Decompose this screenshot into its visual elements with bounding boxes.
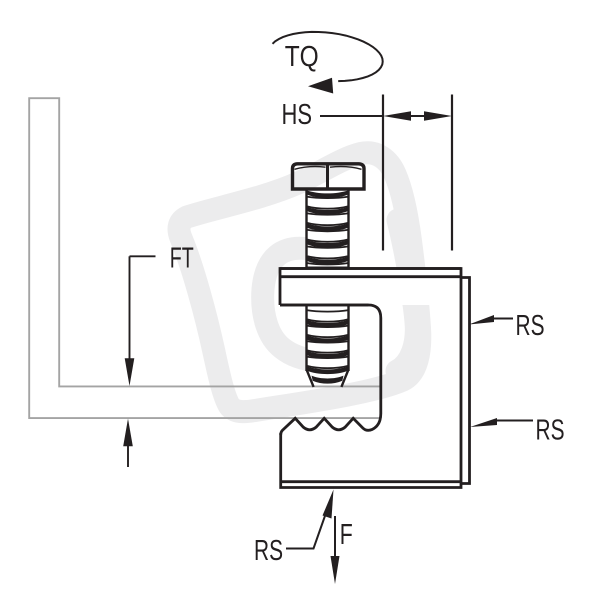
clamp top arm edge redraw [280, 269, 461, 306]
screw taper tip outline [307, 370, 348, 387]
clamp outer outline [280, 269, 461, 488]
screw lower thread texture [307, 320, 349, 384]
dimension HS [320, 115, 425, 117]
svg-text:TQ: TQ [285, 41, 319, 73]
side plate [461, 278, 470, 484]
watermark logo [179, 153, 420, 412]
white fill: bottom jaw of clamp [281, 418, 461, 487]
clamp bottom inner line [281, 480, 461, 483]
bolt hex head [293, 164, 365, 189]
svg-text:F: F [340, 519, 353, 551]
screw upper thread texture [307, 190, 349, 264]
leader RS right upper [469, 315, 513, 325]
svg-text:RS: RS [254, 535, 283, 567]
dimension TQ arc [273, 32, 383, 94]
beam (L-shaped, gray) [29, 98, 380, 418]
watermark frame [179, 153, 420, 412]
white fill: top arm of clamp [280, 269, 461, 306]
svg-text:HS: HS [282, 99, 313, 131]
screw lower shank white fill [307, 306, 349, 385]
clamp inner profile with serration [280, 305, 381, 435]
screw upper shank white fill [307, 189, 349, 269]
watermark inner C curve [263, 248, 319, 361]
svg-text:RS: RS [536, 415, 565, 447]
svg-text:RS: RS [516, 310, 545, 342]
dimension FT [128, 256, 156, 467]
clamp body outline [280, 269, 470, 488]
svg-text:FT: FT [170, 243, 194, 275]
clamp top arm second line [280, 275, 461, 278]
leader RS right lower [470, 418, 533, 427]
force arrow F [331, 516, 340, 584]
leader RS bottom [286, 490, 334, 549]
watermark inner J stroke [397, 220, 416, 371]
screw lower shank side lines [307, 305, 349, 371]
screw upper shank side lines [307, 189, 349, 269]
